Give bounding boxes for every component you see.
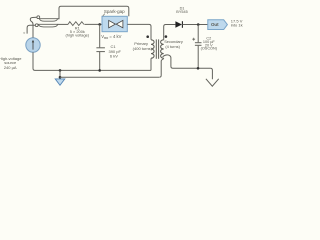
leader line [103,14,105,17]
ground [55,79,65,85]
top wire [61,6,129,16]
wire lower plate to R1 [58,23,68,25]
svg-text:6 kV: 6 kV [110,54,118,59]
terminal ball lower [35,24,38,27]
svg-text:Out: Out [211,22,219,27]
secondary top lead to diode [164,25,176,40]
wire output return corner [210,68,212,79]
secondary bottom lead to ground bus [159,58,164,77]
phase dot secondary [165,35,168,38]
current source I1 [26,38,40,52]
terminal ball upper [37,16,40,19]
secondary tap to output return [163,55,211,68]
svg-text:Spark-gap: Spark-gap [104,9,125,14]
svg-text:(4 turns): (4 turns) [165,44,180,49]
secondary winding [161,40,164,58]
svg-text:(400 turns): (400 turns) [133,46,153,51]
return arrow [206,79,219,86]
capacitor C2 [197,25,199,43]
transformer T1 primary winding [151,40,154,58]
spark gap G1 box [102,16,127,31]
resistor R1 [68,22,84,26]
wire source bottom [33,52,35,70]
capacitor C1 [99,24,101,47]
ground stub wire [59,70,61,78]
phase dot primary [146,35,149,38]
node A junction [98,23,101,26]
svg-text:(OSCON): (OSCON) [201,47,218,51]
wire stub from lower electrode (open contact) [27,25,35,33]
wire diode to out [182,24,207,26]
primary bottom lead [150,58,152,70]
wire R1 to node [84,23,102,25]
node ground stub lower junction [59,76,62,79]
node B junction [197,23,200,26]
wire upper plate riser to top wire [58,6,61,19]
wire source top to upper electrode [30,17,37,37]
svg-text:into 1k: into 1k [231,23,243,28]
node C1 bottom junction [98,69,101,72]
spark gap electrodes [109,20,116,27]
node C2 bottom junction [197,67,200,70]
node ground stub top junction [59,69,62,72]
out flag [208,20,228,30]
svg-text:240 µA: 240 µA [4,65,17,70]
wire box to primary [127,24,151,39]
ground bus wire [35,69,151,71]
upper electrode plate [39,19,57,22]
diode D1 [175,21,182,28]
node mark (faint) [24,32,25,33]
svg-text:(high voltage): (high voltage) [66,32,90,37]
lower electrode plate [38,24,58,27]
svg-text:BY545: BY545 [176,10,187,14]
transformer core [155,39,157,58]
second bus wire [60,76,159,78]
